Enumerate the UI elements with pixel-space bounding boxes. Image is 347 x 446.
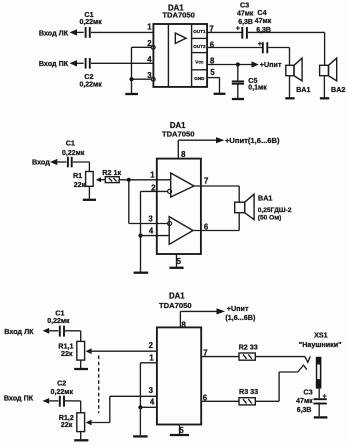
svg-text:BA2: BA2 (331, 85, 345, 94)
svg-text:3: 3 (148, 215, 153, 224)
svg-text:47мк: 47мк (296, 398, 313, 405)
svg-text:47мк: 47мк (237, 10, 254, 17)
svg-text:4: 4 (150, 397, 155, 406)
svg-text:(50 Ом): (50 Ом) (258, 214, 282, 221)
svg-text:6,3В: 6,3В (238, 19, 253, 26)
svg-text:3: 3 (149, 386, 154, 395)
svg-text:47мк: 47мк (255, 18, 272, 25)
svg-text:R2 1к: R2 1к (102, 168, 121, 177)
svg-text:BA1: BA1 (258, 194, 272, 203)
svg-text:+Uпит(1,6...6В): +Uпит(1,6...6В) (225, 136, 280, 145)
svg-text:7: 7 (204, 177, 208, 186)
svg-text:Вход ПК: Вход ПК (4, 394, 34, 403)
svg-text:TDA7050: TDA7050 (162, 129, 195, 138)
svg-text:5: 5 (179, 426, 184, 435)
svg-text:22к: 22к (74, 180, 86, 189)
svg-text:C2: C2 (57, 379, 66, 388)
svg-text:0,22мк: 0,22мк (47, 318, 70, 325)
svg-text:+Uпит: +Uпит (260, 60, 282, 69)
svg-text:5: 5 (210, 68, 215, 77)
svg-text:1: 1 (150, 171, 155, 180)
svg-text:6,3В: 6,3В (297, 407, 312, 414)
svg-text:2: 2 (149, 341, 154, 350)
svg-text:0,25ГДШ-2: 0,25ГДШ-2 (258, 207, 292, 214)
svg-text:0,22мк: 0,22мк (51, 389, 74, 396)
svg-text:DA1: DA1 (169, 291, 185, 300)
svg-text:OUT1: OUT1 (193, 29, 206, 34)
svg-text:R2 33: R2 33 (239, 342, 258, 351)
svg-text:5: 5 (177, 257, 182, 266)
svg-text:2: 2 (151, 184, 156, 193)
svg-text:1: 1 (149, 353, 154, 362)
svg-text:Вход: Вход (32, 158, 50, 167)
svg-text:0,22мк: 0,22мк (79, 82, 102, 89)
svg-text:C2: C2 (84, 72, 93, 81)
svg-text:TDA7050: TDA7050 (162, 11, 195, 20)
svg-text:0,22мк: 0,22мк (62, 150, 85, 157)
svg-text:C4: C4 (257, 8, 266, 17)
svg-text:Вход ПК: Вход ПК (39, 59, 69, 68)
svg-text:22к: 22к (61, 420, 73, 429)
svg-text:R1: R1 (73, 171, 82, 180)
svg-text:3: 3 (147, 71, 152, 80)
svg-text:8: 8 (181, 150, 186, 159)
svg-text:TDA7050: TDA7050 (159, 301, 192, 310)
svg-text:0,22мк: 0,22мк (79, 19, 102, 26)
svg-text:1: 1 (147, 22, 152, 31)
svg-text:8: 8 (182, 320, 187, 329)
svg-text:GND: GND (194, 76, 205, 81)
svg-text:C3: C3 (240, 0, 249, 9)
svg-text:C3: C3 (303, 387, 312, 396)
svg-text:0,1мк: 0,1мк (248, 84, 267, 91)
svg-text:22к: 22к (61, 349, 73, 358)
svg-text:+: + (258, 39, 262, 48)
svg-text:(1,6...6В): (1,6...6В) (225, 313, 256, 322)
svg-text:C1: C1 (84, 10, 93, 19)
svg-text:4: 4 (147, 55, 152, 64)
svg-text:BA1: BA1 (296, 85, 310, 94)
svg-text:+Uпит: +Uпит (227, 304, 249, 313)
svg-text:R3 33: R3 33 (239, 387, 258, 396)
svg-text:"Наушники": "Наушники" (299, 340, 342, 349)
svg-text:2: 2 (147, 39, 152, 48)
svg-text:Вход ЛК: Вход ЛК (4, 327, 34, 336)
svg-text:OUT2: OUT2 (193, 44, 206, 49)
svg-text:C1: C1 (66, 139, 75, 148)
svg-text:4: 4 (149, 226, 154, 235)
svg-text:XS1: XS1 (314, 330, 328, 339)
svg-text:6,3В: 6,3В (256, 27, 271, 34)
svg-text:Vcc: Vcc (195, 60, 204, 65)
svg-text:Вход ЛК: Вход ЛК (39, 29, 69, 38)
svg-text:C1: C1 (55, 308, 64, 317)
